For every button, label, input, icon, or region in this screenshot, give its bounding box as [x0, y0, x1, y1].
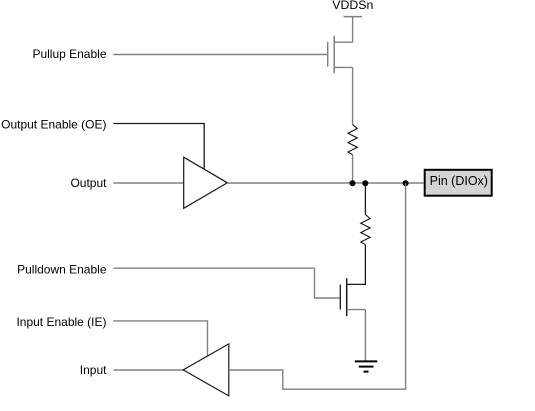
- wire Q1 drain to R1: [352, 67, 354, 124]
- wire U2 input from pad node: [229, 183, 406, 389]
- wire Pullup Enable to Q1 gate: [113, 54, 327, 56]
- wire node B to R2: [364, 183, 366, 214]
- op-amp U2 (input buffer): [183, 344, 229, 396]
- wire Input Enable to U2: [113, 321, 207, 356]
- wire VDDSn bar to Q1 source: [352, 17, 354, 43]
- svg-text:Output: Output: [70, 176, 107, 190]
- Pin (DIOx) box: [425, 170, 492, 196]
- op-amp U1 (output buffer): [184, 157, 228, 208]
- svg-text:Pullup Enable: Pullup Enable: [32, 47, 106, 61]
- svg-text:Input Enable (IE): Input Enable (IE): [16, 315, 106, 329]
- svg-text:Pulldown Enable: Pulldown Enable: [17, 262, 107, 276]
- svg-text:Output Enable (OE): Output Enable (OE): [1, 118, 106, 132]
- svg-text:Pin (DIOx): Pin (DIOx): [430, 174, 488, 188]
- wire R1 to pad node: [352, 155, 354, 184]
- wire U1 output to Pin (node wire): [227, 182, 423, 184]
- power rail VDDSn bar: [344, 16, 363, 18]
- node junction dot C: [403, 180, 409, 186]
- resistor R1 (pullup): [348, 125, 357, 155]
- transistor Q1 (pullup PMOS): [328, 36, 353, 74]
- wire R2 to Q2 drain: [347, 245, 366, 285]
- wire Input to U2 output: [113, 369, 183, 371]
- node junction dot A: [350, 180, 356, 186]
- svg-text:VDDSn: VDDSn: [332, 0, 373, 12]
- wire Pulldown Enable to Q2 gate: [113, 268, 340, 298]
- resistor R2 (pulldown): [361, 215, 370, 245]
- node junction dot B: [362, 180, 368, 186]
- transistor Q2 (pulldown NMOS): [340, 278, 365, 316]
- wire Output to U1 input: [113, 182, 183, 184]
- ground: [355, 361, 378, 371]
- svg-text:Input: Input: [80, 363, 107, 377]
- wire Output Enable to U1: [113, 124, 204, 170]
- wire Q2 source to ground: [364, 310, 366, 361]
